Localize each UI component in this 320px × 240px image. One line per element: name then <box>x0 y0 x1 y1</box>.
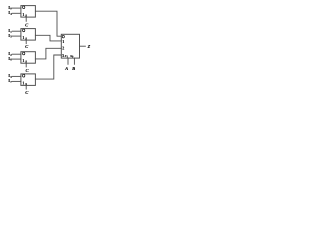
M2 pin labels 0,1,s <box>23 29 25 32</box>
svg-text:1: 1 <box>22 12 24 17</box>
mux M5 (4:1) <box>61 34 79 58</box>
svg-text:3: 3 <box>62 53 64 58</box>
M1 pin labels 0,1,s <box>23 6 25 9</box>
wire M5 output Z <box>80 45 86 47</box>
wire M2 output to mux M5 input 1 <box>35 35 61 41</box>
svg-text:s: s <box>24 36 27 41</box>
wire I1 to M2 input 0 <box>12 30 21 32</box>
wire M3 select C <box>25 63 27 67</box>
wire I7 to M4 input 1 <box>12 80 21 82</box>
svg-text:1: 1 <box>22 80 24 85</box>
wire I3 to M4 input 0 <box>12 75 21 77</box>
svg-text:B: B <box>71 66 75 71</box>
wire I6 to M3 input 1 <box>12 58 21 60</box>
svg-text:s: s <box>24 13 27 18</box>
wire I5 to M2 input 1 <box>12 35 21 37</box>
wire M4 select C <box>25 85 27 89</box>
M5 pin labels 0,1,2,3 <box>62 35 64 38</box>
svg-text:s: s <box>24 59 27 64</box>
wire I4 to M1 input 1 <box>12 12 21 14</box>
wire M4 output to mux M5 input 3 <box>35 55 61 79</box>
wire M3 output to mux M5 input 2 <box>35 48 61 59</box>
wire M5 select A <box>67 58 69 64</box>
svg-text:I7: I7 <box>8 78 12 84</box>
mux M4 (2:1) <box>21 74 36 86</box>
wire I0 to M1 input 0 <box>12 7 21 9</box>
svg-text:1: 1 <box>22 35 24 40</box>
M3 pin labels 0,1,s <box>23 52 25 55</box>
svg-text:I5: I5 <box>8 33 12 39</box>
svg-text:s0: s0 <box>69 53 74 59</box>
wire M5 select B <box>73 58 75 64</box>
M4 pin labels 0,1,s <box>23 74 25 77</box>
wire M2 select C <box>25 40 27 44</box>
svg-text:Z: Z <box>87 44 91 49</box>
svg-text:s: s <box>24 81 27 86</box>
svg-text:1: 1 <box>22 58 24 63</box>
svg-text:2: 2 <box>62 46 64 51</box>
svg-text:s1: s1 <box>64 53 69 59</box>
svg-text:1: 1 <box>62 39 64 44</box>
svg-text:I6: I6 <box>8 56 12 62</box>
svg-text:I4: I4 <box>8 10 12 16</box>
mux M1 (2:1) <box>21 6 36 18</box>
mux M3 (2:1) <box>21 52 36 64</box>
wire I2 to M3 input 0 <box>12 53 21 55</box>
wire M1 output to mux M5 input 0 <box>35 11 61 36</box>
mux M2 (2:1) <box>21 29 36 40</box>
svg-text:A: A <box>64 66 68 71</box>
wire M1 select C <box>25 17 27 21</box>
